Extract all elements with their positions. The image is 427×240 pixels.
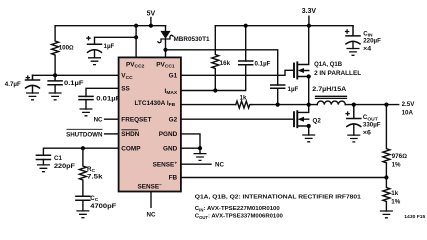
svg-text:SENSE+: SENSE+ [153, 162, 178, 169]
ground (COUT) [347, 135, 360, 142]
svg-text:1µF: 1µF [104, 43, 115, 50]
wire IFB / switch node line [181, 104, 236, 106]
wire bootstrap branch [166, 50, 278, 85]
svg-text:COUT: AVX-TPSE337M006R0100: COUT: AVX-TPSE337M006R0100 [195, 214, 284, 220]
svg-text:4.7µF: 4.7µF [5, 81, 21, 88]
svg-text:0.1µF: 0.1µF [64, 80, 84, 87]
junction dot PGND/GND [198, 146, 202, 150]
IC U1 LTC1430A [119, 57, 181, 191]
svg-text:220pF: 220pF [54, 163, 75, 170]
resistor 1k (IFB) [236, 101, 252, 108]
svg-text:FREQSET: FREQSET [121, 117, 151, 124]
pin SHDN [121, 130, 139, 138]
ground (Q2 source) [302, 135, 315, 142]
svg-text:NC: NC [94, 116, 103, 123]
svg-text:3.3V: 3.3V [302, 8, 317, 15]
wire COMP line [43, 148, 118, 155]
node 3.3V label [302, 8, 317, 15]
node SHUTDOWN [66, 129, 103, 138]
svg-text:5V: 5V [147, 11, 156, 18]
svg-text:1%: 1% [392, 162, 401, 169]
svg-text:7.5k: 7.5k [87, 174, 103, 181]
inductor 2.7uH [316, 96, 347, 104]
resistor 100ohm [52, 26, 59, 76]
node NC (SENSE-) [147, 212, 156, 219]
junction dot Q1 drain on rail [307, 24, 311, 28]
wire switch node [252, 104, 399, 106]
svg-text:NC: NC [147, 212, 156, 219]
diode MBR0530T1 [158, 26, 173, 58]
ground (C1) [37, 165, 50, 172]
wire FB line [181, 177, 387, 179]
svg-text:Q2: Q2 [313, 118, 322, 125]
junction dot IMAX/16k [213, 88, 217, 92]
svg-text:NC: NC [215, 162, 224, 169]
wire 3.3V lead [308, 16, 310, 26]
svg-text:1430 F15: 1430 F15 [404, 214, 426, 219]
svg-text:Q1A, Q1B: Q1A, Q1B [314, 61, 343, 68]
wire G2 line [181, 118, 294, 120]
transistor Q2 [294, 105, 309, 135]
transistor Q1A Q1B [294, 26, 309, 105]
svg-text:SHDN: SHDN [121, 131, 139, 138]
svg-text:1µF: 1µF [288, 86, 299, 93]
junction dot divider tap [384, 103, 388, 107]
resistor RC 7.5k [79, 148, 86, 196]
svg-text:G2: G2 [169, 117, 178, 124]
node NC (FREQSET) [94, 116, 103, 123]
capacitor 0.01uF (soft start) [79, 96, 93, 109]
annotation line 2 [195, 206, 281, 212]
svg-text:Q1A, Q1B, Q2: INTERNATIONAL RE: Q1A, Q1B, Q2: INTERNATIONAL RECTIFIER IR… [195, 195, 362, 201]
figure tag [404, 214, 426, 219]
junction dot 0.1uF on rail [244, 24, 248, 28]
ground (CIN) [347, 49, 360, 56]
svg-text:SHUTDOWN: SHUTDOWN [66, 131, 103, 138]
ground (1uF 5V bypass) [88, 58, 101, 65]
node NC (SENSE+) [215, 162, 224, 169]
svg-text:330µF: 330µF [363, 121, 381, 128]
junction dot VCC/100ohm/0.1uF [53, 73, 57, 77]
svg-text:MBR0530T1: MBR0530T1 [174, 36, 211, 43]
wire SENSE+ stub [181, 163, 211, 165]
svg-text:G1: G1 [169, 73, 178, 80]
junction dot bootstrap bottom [276, 103, 280, 107]
svg-text:10A: 10A [402, 110, 414, 117]
wire PVCC2 vertical [135, 26, 137, 58]
junction dot PVCC2 tap [134, 24, 138, 28]
svg-text:4700pF: 4700pF [90, 203, 116, 210]
svg-text:COMP: COMP [121, 146, 141, 153]
svg-text:CIN: AVX-TPSE227M010R0100: CIN: AVX-TPSE227M010R0100 [195, 206, 281, 212]
wire 1uF branch [95, 37, 137, 44]
ground (4.7uF) [26, 93, 39, 100]
node 2.5V output [402, 101, 416, 116]
junction dot 5V lead [149, 24, 153, 28]
capacitor C1 220pF [36, 155, 50, 165]
junction dot COUT [352, 103, 356, 107]
wire FREQSET stub [105, 118, 119, 120]
junction dot COMP/Rc [81, 146, 85, 150]
capacitor CC 4700pF [76, 196, 90, 211]
wire PGND line [181, 134, 200, 148]
capacitor CIN [346, 26, 360, 49]
resistor 976ohm 1% [383, 105, 390, 178]
svg-text:2.7µH/15A: 2.7µH/15A [312, 86, 346, 93]
svg-text:×6: ×6 [363, 130, 372, 137]
wire G1 line [181, 70, 294, 75]
svg-text:C1: C1 [54, 155, 62, 162]
capacitor 1uF bootstrap [271, 85, 285, 105]
svg-text:2.5V: 2.5V [402, 101, 416, 108]
ground (CC) [76, 211, 89, 218]
svg-text:0.1µF: 0.1µF [255, 61, 271, 68]
wire 5V rail [55, 25, 165, 27]
wire GND line [181, 148, 200, 153]
svg-text:2 IN PARALLEL: 2 IN PARALLEL [314, 70, 361, 77]
wire IMAX line [181, 65, 246, 91]
svg-text:×4: ×4 [363, 46, 372, 53]
wire 5V lead [150, 18, 152, 26]
junction dot PVCC1/bootstrap [163, 48, 167, 52]
capacitor 0.1uF (IMAX) [239, 26, 253, 65]
svg-text:0.01µF: 0.01µF [96, 96, 120, 103]
wire SHDN stub [105, 133, 119, 135]
junction dot 1uF branch [134, 35, 138, 39]
ground (PGND/GND) [194, 154, 207, 161]
capacitor 0.1uF (VCC) [48, 75, 62, 93]
svg-text:1k: 1k [240, 95, 247, 102]
node 5V label [147, 11, 156, 18]
wire 3.3V rail [215, 25, 353, 27]
resistor 1k 1% [383, 178, 390, 212]
svg-text:GND: GND [163, 146, 178, 153]
wire VCC line [33, 74, 119, 76]
svg-text:220µF: 220µF [363, 38, 381, 45]
capacitor COUT [347, 105, 361, 136]
capacitor 1uF (5V bypass) [88, 44, 102, 58]
svg-text:PGND: PGND [159, 131, 178, 138]
resistor 16k [212, 26, 219, 91]
junction dot FB [384, 175, 388, 179]
svg-text:FB: FB [169, 175, 178, 182]
svg-text:SENSE−: SENSE− [138, 183, 163, 190]
svg-text:976Ω: 976Ω [392, 153, 408, 160]
svg-text:1k: 1k [391, 190, 398, 197]
svg-text:100Ω: 100Ω [59, 45, 74, 52]
ground (0.1uF VCC) [49, 93, 62, 100]
annotation line 1 [195, 195, 362, 201]
annotation line 3 [195, 214, 284, 220]
ground (divider) [380, 211, 393, 218]
junction dot switch node [307, 103, 311, 107]
svg-text:SS: SS [121, 86, 130, 93]
capacitor 4.7uF [26, 75, 40, 93]
svg-text:16k: 16k [220, 60, 231, 67]
svg-text:1%: 1% [391, 198, 400, 205]
wire SENSE- stub [150, 192, 152, 208]
ground (0.01uF) [80, 109, 93, 116]
wire SS line [86, 88, 119, 96]
